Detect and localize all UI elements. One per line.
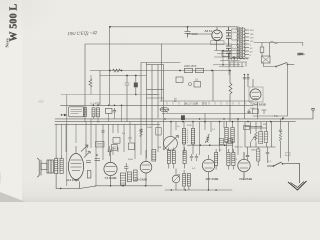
AF tube 2 — [104, 150, 117, 186]
wire input cluster drops — [94, 105, 122, 121]
rectifier tube AZ11 — [188, 27, 223, 51]
svg-text:0,1 4700: 0,1 4700 — [91, 102, 101, 105]
svg-text:AZ 11: AZ 11 — [205, 29, 213, 33]
wire speaker drops — [56, 124, 76, 155]
resistor striped between tubes 1 — [120, 163, 137, 185]
label above switch — [286, 153, 291, 156]
label box above tube2 — [96, 142, 105, 148]
small box ladder top — [156, 128, 161, 136]
antenna coil 1 — [215, 149, 218, 170]
paper stain — [38, 100, 44, 103]
audio coupling components — [84, 152, 100, 179]
svg-text:2x0,1 5000 1750: 2x0,1 5000 1750 — [184, 102, 208, 105]
transformer bottom winding — [228, 58, 247, 67]
wire IF foot bus — [187, 144, 233, 146]
resistor right of tube3 — [152, 150, 156, 162]
svg-text:5000: 5000 — [251, 150, 257, 152]
dial lamp — [160, 107, 169, 112]
resistor grid magic eye — [229, 71, 232, 122]
capacitor box x130 — [129, 143, 135, 150]
svg-text:4µF: 4µF — [233, 32, 237, 34]
tone switch — [267, 162, 300, 183]
mains cord squiggle — [270, 41, 278, 44]
IF secondary leads caps — [190, 154, 198, 161]
wire screen left vertical — [84, 44, 86, 122]
junction component bus B right — [247, 109, 284, 119]
oscillator coil pair — [167, 148, 175, 169]
wire screen stub — [90, 75, 92, 95]
resistor foot box 1 — [219, 139, 223, 145]
svg-text:2M: 2M — [263, 124, 266, 126]
junction dots bus C mid — [164, 118, 239, 122]
pickup terminal — [311, 109, 315, 119]
svg-text:AFF 2A3B: AFF 2A3B — [206, 177, 219, 181]
svg-text:FA2 2A3B: FA2 2A3B — [240, 177, 253, 181]
IF transformer 3 — [225, 122, 234, 153]
vertical drops to tubes — [86, 114, 238, 187]
svg-text:5000: 5000 — [128, 159, 134, 161]
wire lamp to switch — [264, 63, 277, 67]
wire bus B — [55, 118, 313, 120]
capacitor input — [106, 108, 117, 115]
detector tube — [238, 152, 250, 180]
wire screen bus — [85, 43, 232, 45]
wire mid bus — [162, 113, 253, 115]
resistor box mid — [113, 138, 120, 144]
wire antenna down-lead — [66, 95, 68, 186]
antenna bullet — [64, 114, 67, 116]
IF transformer 2 — [188, 122, 195, 155]
label in box — [113, 147, 117, 149]
electrolytic capacitors — [226, 27, 231, 58]
wire pot drop — [175, 169, 177, 191]
resistor small on ladder — [140, 129, 143, 137]
wire bus C — [55, 121, 296, 123]
junction dots IF foot bus — [200, 144, 226, 146]
svg-text:4700: 4700 — [187, 125, 193, 127]
svg-text:8µF: 8µF — [233, 48, 237, 50]
svg-text:5000: 5000 — [192, 32, 199, 36]
speaker — [37, 158, 53, 177]
svg-text:T.A.: T.A. — [274, 115, 278, 118]
mixer tube — [202, 155, 214, 190]
wire B+ bus — [90, 70, 230, 72]
dial scale ticks — [167, 102, 251, 105]
capacitor C mains — [185, 26, 191, 38]
heater wires — [213, 51, 244, 76]
volume pot arrow — [81, 145, 88, 152]
wire vertical x100 — [99, 71, 101, 106]
ground symbol — [288, 181, 307, 190]
rectifier sub-box — [211, 41, 225, 45]
wire AVC faint bus — [61, 94, 160, 96]
svg-text:W 500 L: W 500 L — [9, 3, 20, 41]
svg-text:EM4 2A3B: EM4 2A3B — [253, 103, 266, 107]
micro labels sprinkle — [86, 122, 272, 171]
wire osc bus — [141, 62, 180, 64]
resistor R feed 2 — [196, 68, 204, 72]
pilot lamp — [262, 56, 271, 63]
svg-text:AL4 2A3B: AL4 2A3B — [66, 178, 79, 182]
svg-text:1M: 1M — [158, 147, 161, 149]
wire HT top bus — [110, 26, 237, 28]
magic eye tube — [243, 74, 263, 119]
output tube AL4 — [68, 146, 83, 182]
svg-text:7,5 GA2B: 7,5 GA2B — [105, 176, 117, 180]
transformer tap labels — [250, 30, 254, 57]
antenna terminal box — [69, 107, 85, 117]
grid components right — [246, 147, 269, 166]
wire vertical x213 — [212, 71, 214, 102]
wire main bus A — [61, 104, 254, 106]
wire ground bus right — [165, 189, 232, 191]
resistor diagonal — [205, 134, 210, 143]
wire pickup chain — [279, 119, 289, 162]
resistor ladder magic eye — [244, 122, 276, 147]
AF tube 3 — [140, 150, 152, 186]
wire ladder rungs — [147, 65, 164, 98]
wire converter ladder — [141, 63, 164, 122]
resistor R feed 1 — [185, 68, 193, 72]
svg-text:Nora: Nora — [5, 38, 10, 48]
wire switch drop — [253, 64, 288, 116]
capacitor box 0,1 — [194, 82, 201, 88]
wire HT left vertical — [109, 27, 111, 106]
wire lamp feed — [262, 43, 270, 57]
output transformer — [55, 156, 97, 190]
svg-text:7,5 GA2B: 7,5 GA2B — [135, 177, 147, 181]
wire top IF bus — [160, 100, 253, 102]
capacitor bars x127 — [125, 83, 129, 85]
antenna arrow lead — [62, 114, 65, 116]
svg-text:19U C'EQ) ~42: 19U C'EQ) ~42 — [67, 30, 97, 36]
oscillator coil 2 — [183, 148, 186, 169]
cap above tube2 — [108, 146, 112, 156]
power transformer — [236, 27, 249, 59]
antenna coil 2 — [227, 149, 235, 170]
small circle symbol — [188, 83, 191, 86]
resistor input 1 — [84, 108, 100, 117]
resistor foot box 2 — [228, 139, 233, 144]
wire short bus E — [245, 126, 262, 128]
capacitor block dark — [134, 83, 138, 88]
small transformer — [183, 170, 191, 190]
junction dots audio ground — [110, 185, 147, 187]
junction dot AVC — [135, 94, 137, 96]
mains switch — [276, 63, 294, 67]
heater junction dots — [222, 50, 235, 66]
junction dots bus C right — [247, 118, 283, 122]
resistor box lower — [111, 145, 117, 151]
wire vertical x137 — [135, 76, 137, 95]
wire vertical x127 — [126, 76, 128, 122]
potentiometer — [172, 175, 180, 183]
svg-text:5000 0,1: 5000 0,1 — [235, 147, 244, 149]
wire vertical x161 — [161, 44, 163, 101]
IF transformer 1 — [182, 122, 185, 155]
capacitor value boxes — [232, 29, 238, 58]
fuse — [260, 47, 264, 53]
junction dots bus — [109, 26, 231, 77]
svg-text:5000: 5000 — [147, 127, 153, 129]
wire AVC sub bus — [100, 75, 147, 77]
resistor screen dropper — [89, 79, 92, 87]
dark component x180 — [181, 115, 185, 120]
resistor box 0,1 — [176, 77, 183, 83]
wire mains lead — [254, 43, 303, 46]
svg-text:2000 1500: 2000 1500 — [184, 64, 197, 68]
wire bus D — [55, 123, 160, 125]
tuning capacitor — [164, 136, 179, 151]
wire ground bus left — [95, 185, 162, 187]
resistor zigzag B+ — [113, 69, 121, 72]
junction dots ground bus — [171, 189, 217, 191]
junction dots bus A — [93, 105, 123, 107]
svg-text:220V~: 220V~ — [298, 53, 306, 56]
capacitor box heater — [222, 51, 230, 56]
